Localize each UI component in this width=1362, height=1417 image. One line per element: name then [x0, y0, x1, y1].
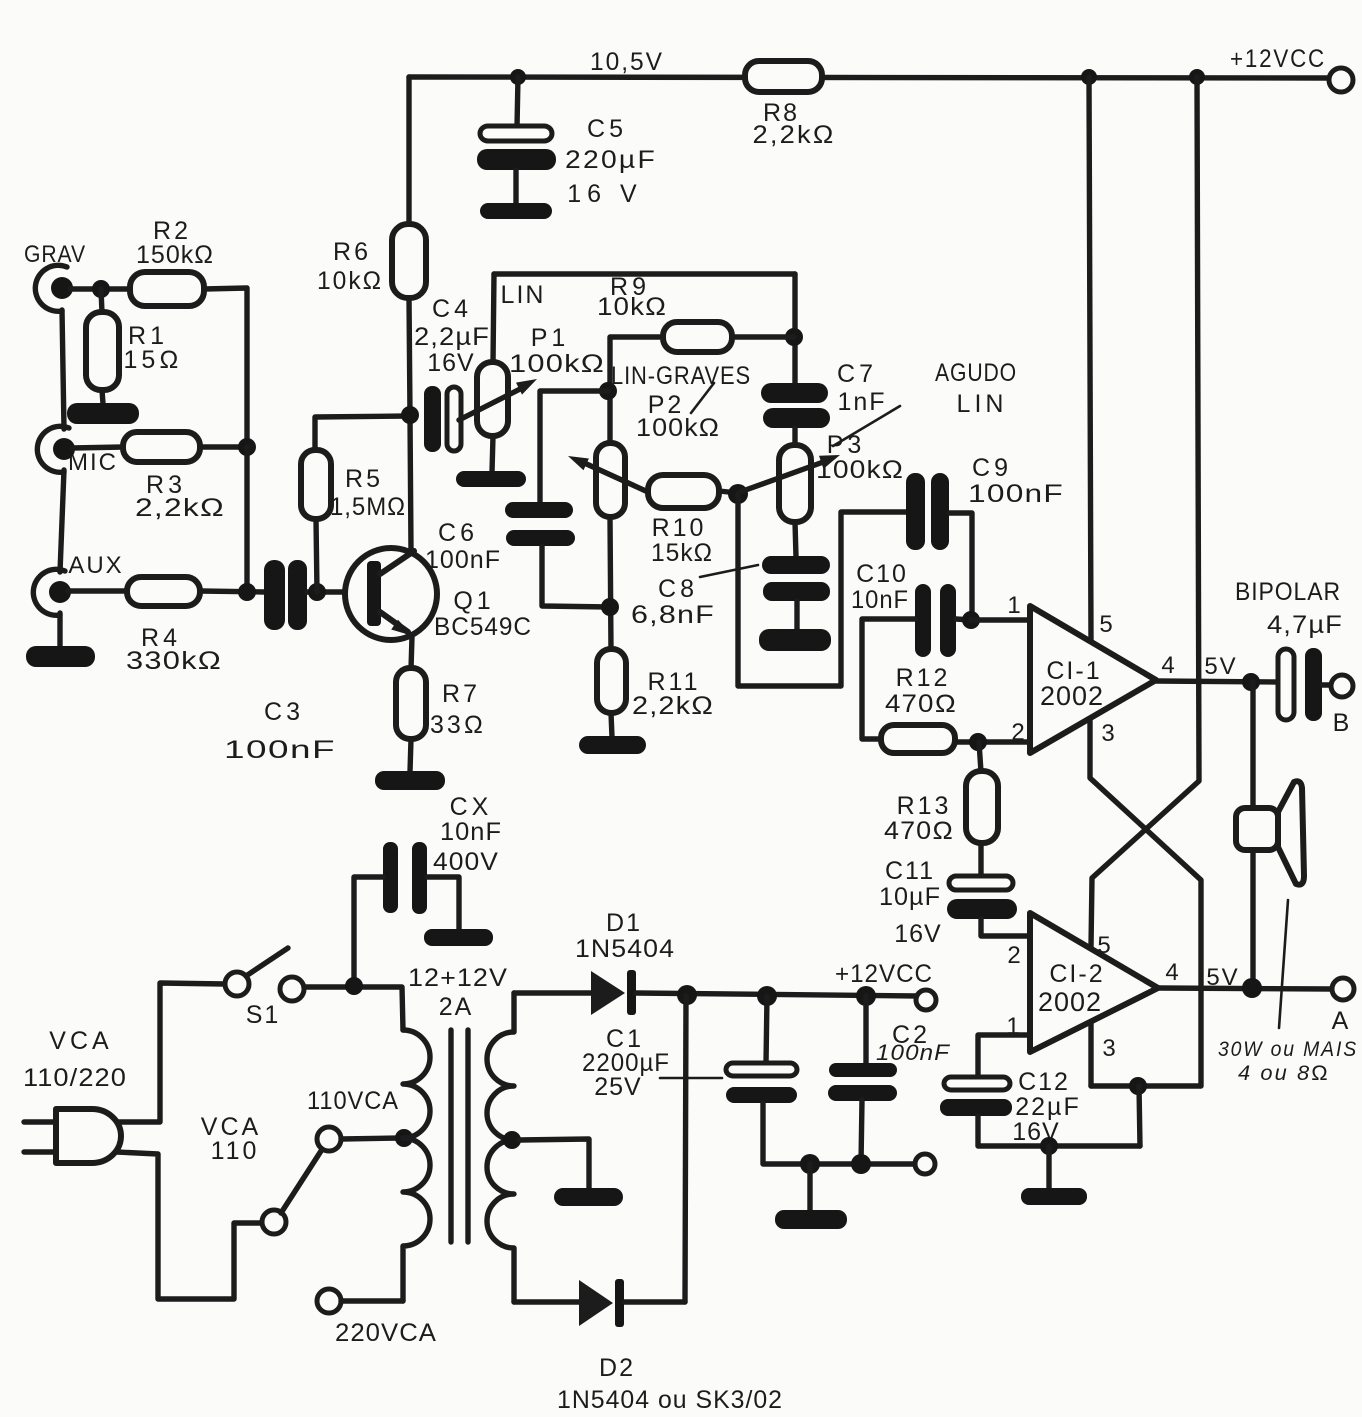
svg-text:R13: R13	[897, 792, 952, 820]
wire plug top to S1	[119, 983, 225, 1122]
wire C6 top link	[540, 391, 608, 502]
svg-text:CI-2: CI-2	[1049, 960, 1104, 988]
transformer T1 core left	[448, 1030, 453, 1242]
svg-text:R6: R6	[333, 238, 371, 266]
transistor Q1 emitter arrowhead	[391, 620, 413, 636]
svg-text:2,2kΩ: 2,2kΩ	[753, 121, 836, 149]
wire jack shells vertical	[62, 310, 64, 429]
wire R10 right lead	[719, 491, 738, 493]
svg-text:4: 4	[1161, 652, 1174, 679]
capacitor C9 right plate	[931, 473, 949, 550]
wire secondary top to D1	[514, 990, 592, 995]
transistor Q1 collector stroke	[380, 551, 414, 574]
ground below C5	[480, 203, 552, 219]
wire R9 right lead	[732, 334, 794, 339]
wire CX right lead	[427, 877, 459, 930]
svg-text:C9: C9	[972, 454, 1012, 482]
svg-text:10nF: 10nF	[851, 586, 909, 614]
wire bipolar to B terminal	[1322, 682, 1331, 687]
svg-text:16V: 16V	[894, 920, 941, 948]
node C2 junction	[856, 986, 876, 1006]
svg-text:25V: 25V	[594, 1073, 641, 1101]
resistor R10	[648, 475, 719, 508]
resistor R9	[663, 322, 732, 352]
svg-text:1N5404: 1N5404	[575, 935, 675, 963]
svg-text:D1: D1	[606, 909, 642, 937]
svg-text:P3: P3	[827, 431, 866, 459]
svg-text:2,2kΩ: 2,2kΩ	[135, 494, 225, 522]
capacitor C8 top plate	[762, 556, 830, 574]
resistor R1	[86, 312, 119, 390]
wire C12 ground stub	[1046, 1146, 1051, 1189]
svg-text:470Ω: 470Ω	[885, 690, 957, 718]
capacitor C10 left plate	[915, 584, 931, 657]
capacitor C12 negative plate	[940, 1099, 1012, 1116]
svg-text:C4: C4	[432, 295, 472, 323]
wire C5 to ground	[513, 170, 518, 204]
svg-text:4 ou 8Ω: 4 ou 8Ω	[1238, 1062, 1330, 1085]
plug prong top	[24, 1119, 56, 1124]
speaker horn	[1278, 781, 1304, 884]
svg-text:AGUDO: AGUDO	[935, 359, 1017, 387]
wire P1 bottom to ground	[492, 436, 493, 472]
wire R11 to ground	[611, 713, 612, 737]
wire Q1 emitter down	[411, 637, 412, 669]
resistor R5	[301, 450, 331, 519]
wire ground stub	[807, 1164, 812, 1211]
wire P2 bottom to R11	[610, 517, 611, 650]
plug prong bottom	[24, 1149, 56, 1154]
potentiometer P2 wiper	[580, 461, 648, 492]
wire C10 left to R12	[862, 619, 915, 739]
svg-text:100nF: 100nF	[968, 480, 1064, 508]
svg-text:10kΩ: 10kΩ	[317, 267, 383, 295]
wire bus MIC to AUX	[244, 447, 249, 592]
wire LIN vertical to P1	[493, 274, 494, 363]
wire C9 right lead down	[949, 513, 972, 620]
svg-text:3: 3	[1101, 720, 1114, 747]
node CI-2 drop on rail	[1189, 69, 1205, 85]
svg-text:110: 110	[211, 1137, 260, 1165]
wire P3 bottom to C8	[795, 522, 796, 557]
capacitor C5 top plate	[480, 126, 552, 141]
terminal B	[1331, 675, 1353, 697]
wire D1 to rail	[636, 993, 918, 996]
wire shells MIC to AUX	[60, 470, 64, 572]
svg-text:S1: S1	[246, 1001, 281, 1029]
svg-text:C8: C8	[658, 575, 698, 603]
wire CI-1 pin5 from rail	[1089, 77, 1091, 641]
capacitor C9 left plate	[906, 473, 925, 550]
terminal +12VCC top-right circle	[1329, 68, 1353, 92]
node bus AUX row	[238, 583, 256, 601]
node CI-1 pin1 junction	[962, 611, 980, 629]
capacitor C6 bottom plate	[506, 530, 575, 546]
ground below P1	[456, 471, 526, 487]
wire R12 to pin2	[955, 739, 1029, 744]
capacitor CX left plate	[383, 842, 398, 913]
capacitor C4 negative plate	[424, 386, 441, 452]
capacitor CX right plate	[412, 842, 427, 914]
svg-text:1: 1	[1007, 592, 1020, 619]
capacitor C2 top plate	[829, 1063, 897, 1077]
wire S1 to transformer	[304, 987, 403, 1030]
svg-text:22µF: 22µF	[1015, 1093, 1080, 1121]
svg-text:1nF: 1nF	[837, 388, 886, 416]
svg-text:MIC: MIC	[68, 449, 118, 476]
svg-text:C10: C10	[856, 560, 908, 588]
wire MIC to R3	[72, 447, 124, 448]
wire top +12V rail	[409, 77, 1329, 78]
transistor Q1 emitter stroke	[380, 612, 408, 632]
wire R5 bottom lead	[316, 519, 317, 592]
wire pin1 CI-1	[971, 617, 1029, 622]
diode D1	[591, 970, 636, 1015]
switch S1 right contact	[280, 977, 304, 1001]
wire R1 to ground	[102, 390, 103, 404]
svg-text:R10: R10	[652, 514, 707, 542]
op-amp CI-1	[1030, 606, 1156, 753]
svg-text:VCA: VCA	[49, 1027, 112, 1055]
resistor R11	[597, 649, 626, 713]
svg-text:D2: D2	[599, 1354, 635, 1382]
svg-text:400V: 400V	[433, 848, 499, 876]
wire C12 bottom rail	[978, 1116, 1140, 1146]
wire R4 to bus node	[200, 591, 265, 592]
jack GRAV contact	[51, 277, 73, 299]
ground below C8	[759, 629, 831, 651]
svg-text:16V: 16V	[427, 349, 474, 377]
svg-text:AUX: AUX	[68, 552, 123, 579]
node C5 tap on rail	[510, 69, 526, 85]
capacitor C11 positive plate	[949, 876, 1013, 890]
svg-text:100nF: 100nF	[425, 546, 501, 574]
resistor R3	[123, 432, 200, 462]
node secondary tap	[503, 1131, 521, 1149]
svg-text:2002: 2002	[1040, 681, 1104, 711]
wire 220VCA to primary	[341, 1298, 403, 1303]
wire R1 top lead	[101, 289, 102, 313]
potentiometer P2 body	[596, 443, 625, 517]
svg-text:15Ω: 15Ω	[123, 346, 182, 374]
svg-text:10µF: 10µF	[879, 883, 941, 911]
capacitor C12 positive plate	[944, 1077, 1010, 1090]
capacitor C3 right plate	[288, 560, 307, 630]
node LIN-GRAVES junction	[599, 382, 617, 400]
svg-text:1,5MΩ: 1,5MΩ	[330, 493, 406, 521]
svg-text:P1: P1	[531, 324, 570, 352]
wire CI-1 pin3 crossover	[1090, 719, 1201, 1086]
svg-text:2,2kΩ: 2,2kΩ	[632, 692, 714, 720]
wire C10 right lead	[956, 619, 971, 620]
svg-text:R5: R5	[345, 465, 383, 493]
node D2 riser junction	[677, 985, 697, 1005]
ground secondary CT	[554, 1188, 623, 1206]
svg-text:2: 2	[1007, 942, 1020, 969]
svg-text:LIN-GRAVES: LIN-GRAVES	[611, 362, 751, 390]
svg-text:12+12V: 12+12V	[408, 964, 508, 992]
potentiometer P3 arrowhead	[819, 455, 840, 469]
jack GRAV shell	[35, 265, 67, 311]
diode D2	[579, 1279, 624, 1327]
resistor R7	[396, 668, 426, 739]
svg-text:1N5404 ou SK3/02: 1N5404 ou SK3/02	[557, 1386, 783, 1414]
potentiometer P3 wiper	[740, 461, 826, 492]
svg-text:150kΩ: 150kΩ	[136, 241, 214, 269]
wire GRAV to R2	[70, 286, 131, 291]
svg-text:C3: C3	[264, 698, 304, 726]
wire R13 top lead	[979, 742, 981, 772]
svg-text:C12: C12	[1018, 1068, 1070, 1096]
svg-text:4: 4	[1165, 959, 1178, 986]
svg-text:30W ou MAIS: 30W ou MAIS	[1218, 1038, 1358, 1061]
wire C5 top lead	[517, 77, 518, 127]
svg-text:15kΩ: 15kΩ	[651, 539, 713, 567]
wire R13 to C11	[978, 843, 983, 877]
capacitor C4 positive plate	[447, 387, 461, 451]
node C4 junction	[401, 406, 419, 424]
capacitor C11 negative plate	[947, 899, 1017, 919]
capacitor C6 top plate	[505, 502, 573, 518]
node CX tap	[345, 977, 363, 995]
ground below R1	[67, 403, 139, 424]
potentiometer P1 wiper	[459, 386, 526, 420]
wire R2 to bus corner	[204, 288, 247, 447]
svg-text:10kΩ: 10kΩ	[597, 293, 667, 321]
node ground row C1	[800, 1154, 820, 1174]
svg-text:LIN: LIN	[501, 281, 546, 309]
wire C3 to Q1 base	[307, 589, 367, 594]
svg-text:2A: 2A	[439, 993, 474, 1021]
svg-text:C7: C7	[837, 360, 877, 388]
transistor Q1 body	[345, 548, 437, 640]
svg-text:2,2µF: 2,2µF	[414, 323, 490, 351]
annotation P2 slash	[691, 383, 714, 413]
capacitor bipolar negative plate	[1305, 648, 1322, 721]
svg-text:C11: C11	[885, 857, 935, 885]
svg-text:3: 3	[1102, 1035, 1115, 1062]
wire R5 top bend	[315, 416, 410, 451]
svg-text:C6: C6	[438, 519, 478, 547]
wire speaker bottom	[1250, 850, 1255, 988]
potentiometer P1 body	[477, 362, 508, 436]
terminal 220VCA	[317, 1289, 341, 1313]
node B output junction	[1242, 673, 1260, 691]
svg-text:220µF: 220µF	[565, 146, 657, 174]
wire C7 to P3	[792, 428, 797, 446]
switch S1 left contact	[225, 972, 249, 996]
potentiometer P3 body	[779, 445, 811, 522]
wire C2 top lead	[863, 996, 868, 1064]
svg-text:100nF: 100nF	[876, 1040, 951, 1065]
svg-text:5: 5	[1097, 932, 1110, 959]
jack AUX contact	[49, 581, 71, 603]
potentiometer P2 arrowhead	[568, 456, 589, 470]
plug body	[56, 1109, 121, 1163]
svg-text:R7: R7	[442, 680, 480, 708]
wire R9 right riser	[792, 274, 797, 384]
resistor R2	[130, 272, 204, 306]
ground below CX	[424, 929, 493, 946]
resistor R12	[881, 725, 955, 753]
ground below C1 C2	[775, 1210, 847, 1229]
node bus MIC row	[238, 438, 256, 456]
jack AUX shell	[33, 569, 65, 615]
switch selector bottom contact	[262, 1210, 286, 1234]
svg-text:+12VCC: +12VCC	[1230, 45, 1326, 73]
node C6 bottom junction	[601, 598, 619, 616]
svg-text:220VCA: 220VCA	[335, 1319, 437, 1347]
capacitor C8 bottom plate	[763, 582, 830, 601]
wire AUX to R4	[68, 588, 128, 593]
wire D2 row left	[514, 1299, 580, 1304]
wire Q1 collector up	[410, 416, 411, 550]
svg-text:16 V: 16 V	[567, 180, 642, 208]
annotation line AGUDO-LIN to P3	[833, 406, 900, 446]
transformer T1 secondary	[487, 993, 514, 1302]
switch selector lever	[281, 1151, 321, 1213]
node A output junction	[1242, 978, 1262, 998]
svg-text:B: B	[1333, 709, 1350, 737]
node C12 ground junction	[1040, 1137, 1058, 1155]
capacitor C1 positive plate	[726, 1063, 797, 1076]
capacitor C1 negative plate	[726, 1087, 797, 1103]
capacitor C7 bottom plate	[763, 408, 830, 428]
wire C1 top lead	[766, 996, 767, 1064]
wire CI-1 output	[1156, 681, 1278, 682]
capacitor C10 right plate	[940, 584, 956, 657]
speaker box	[1236, 808, 1278, 850]
node R9 right junction	[785, 328, 803, 346]
wire shells AUX to ground	[57, 613, 62, 648]
node primary tap	[395, 1129, 413, 1147]
wire D2 riser	[685, 996, 686, 1302]
terminal ground out	[915, 1154, 935, 1174]
node pin3 ground junction	[1129, 1077, 1147, 1095]
svg-text:4,7µF: 4,7µF	[1267, 611, 1343, 639]
resistor R8	[745, 61, 822, 92]
wire C6 bottom link	[542, 546, 610, 607]
svg-text:BIPOLAR: BIPOLAR	[1235, 578, 1341, 606]
svg-text:2: 2	[1011, 719, 1024, 746]
wire speaker top	[1250, 682, 1255, 809]
svg-text:+12VCC: +12VCC	[835, 960, 933, 988]
ground below R11	[579, 736, 646, 754]
ground below R7	[375, 771, 445, 790]
node ground row C2	[851, 1154, 871, 1174]
wire feedback box to C9	[738, 494, 906, 686]
svg-text:100kΩ: 100kΩ	[816, 456, 904, 484]
wire D2 to riser	[624, 1299, 685, 1304]
wire R3 to bus	[200, 444, 247, 449]
ground below jacks	[26, 646, 95, 667]
capacitor C7 top plate	[761, 383, 828, 403]
annotation line C1	[660, 1077, 722, 1080]
svg-text:R12: R12	[896, 664, 951, 692]
annotation line speaker	[1279, 900, 1288, 1028]
svg-text:5: 5	[1099, 611, 1112, 638]
node R13 junction	[969, 733, 987, 751]
svg-text:CX: CX	[450, 793, 493, 821]
svg-text:C5: C5	[587, 115, 627, 143]
wire rail to R6	[406, 77, 411, 226]
node C1 junction	[757, 986, 777, 1006]
resistor R6	[392, 224, 426, 298]
capacitor bipolar positive plate	[1278, 649, 1294, 720]
jack MIC shell	[37, 426, 69, 472]
svg-text:100kΩ: 100kΩ	[509, 350, 605, 378]
wire C2 bottom lead	[861, 1100, 862, 1164]
wire R6 bottom to C4 node	[409, 298, 410, 415]
svg-text:6,8nF: 6,8nF	[631, 601, 715, 629]
svg-text:470Ω: 470Ω	[884, 817, 954, 845]
svg-text:100kΩ: 100kΩ	[636, 414, 720, 442]
wire CI-2 pin3 riser	[1088, 1021, 1093, 1086]
wire LIN top horizontal	[494, 271, 795, 276]
svg-text:5V: 5V	[1204, 653, 1237, 680]
svg-text:10nF: 10nF	[440, 818, 502, 846]
terminal +12VCC mid	[916, 990, 936, 1010]
wire C1 bottom lead	[763, 1103, 916, 1164]
svg-text:LIN: LIN	[957, 390, 1008, 418]
switch S1 lever	[246, 948, 288, 976]
svg-text:A: A	[1332, 1007, 1349, 1035]
node R1 tap	[92, 280, 110, 298]
wire CI-2 pin1	[978, 1035, 1030, 1078]
wire CI-2 output	[1158, 988, 1332, 989]
node R5 bottom junction	[308, 583, 326, 601]
wire rail drop to CI-2 pin5 crossover	[1091, 77, 1199, 947]
terminal 110VCA	[317, 1127, 341, 1151]
svg-text:330kΩ: 330kΩ	[126, 647, 222, 675]
svg-text:33Ω: 33Ω	[430, 711, 486, 739]
jack MIC contact	[53, 438, 75, 460]
potentiometer P1 arrowhead	[516, 379, 537, 395]
wire C8 to ground	[794, 601, 799, 630]
wire R9 left lead and P2 riser	[610, 337, 663, 443]
wire CX left lead	[354, 877, 383, 986]
svg-text:110VCA: 110VCA	[307, 1087, 399, 1115]
op-amp CI-2	[1030, 913, 1158, 1052]
resistor R4	[127, 577, 200, 606]
wire C11 to CI-2 pin2	[981, 919, 1030, 936]
svg-text:Q1: Q1	[453, 587, 494, 615]
capacitor C5 bottom plate	[477, 149, 556, 170]
transistor Q1 base bar	[367, 561, 381, 626]
node R10-P3 junction	[728, 484, 748, 504]
resistor R13	[966, 771, 998, 843]
wire pin3 junction stub	[1139, 1086, 1140, 1146]
svg-text:100nF: 100nF	[224, 736, 336, 764]
wire 110VCA tap	[341, 1138, 401, 1139]
wire plug bottom to selector	[117, 1152, 262, 1299]
transformer T1 core right	[465, 1030, 470, 1242]
capacitor C2 bottom plate	[828, 1085, 897, 1101]
ground below C12	[1021, 1188, 1087, 1205]
svg-text:BC549C: BC549C	[434, 613, 532, 641]
terminal A	[1332, 978, 1354, 1000]
svg-text:10,5V: 10,5V	[590, 48, 664, 76]
svg-text:2002: 2002	[1038, 987, 1102, 1017]
capacitor C3 left plate	[264, 560, 285, 630]
wire secondary tap to ground	[519, 1139, 589, 1189]
node CI-1 pin5 drop on rail	[1081, 69, 1097, 85]
transformer T1 primary	[403, 1030, 430, 1301]
wire R7 to ground	[410, 739, 411, 772]
annotation line C8	[700, 565, 758, 577]
svg-text:110/220: 110/220	[23, 1064, 127, 1092]
